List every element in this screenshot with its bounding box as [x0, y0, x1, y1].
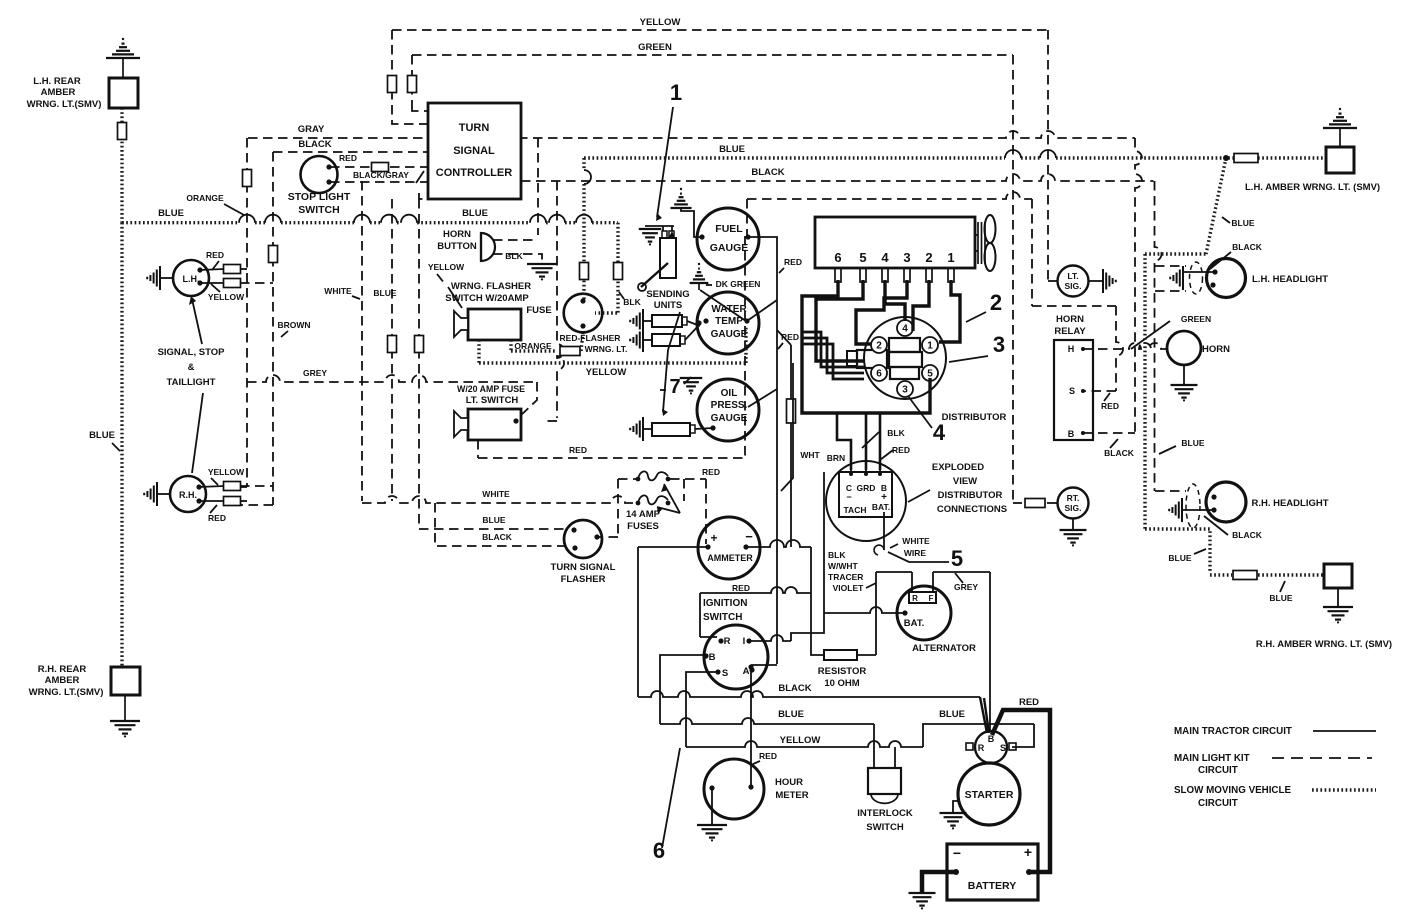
svg-text:YELLOW: YELLOW: [428, 262, 465, 272]
svg-text:BAT.: BAT.: [904, 618, 924, 629]
svg-text:+: +: [1024, 844, 1032, 860]
svg-text:YELLOW: YELLOW: [640, 17, 681, 28]
svg-text:GREEN: GREEN: [1181, 314, 1211, 324]
svg-text:WHITE: WHITE: [324, 286, 352, 296]
svg-text:BLACK: BLACK: [298, 139, 331, 150]
svg-text:2: 2: [925, 250, 932, 265]
svg-text:IGNITION: IGNITION: [703, 598, 747, 609]
svg-text:L.H. HEADLIGHT: L.H. HEADLIGHT: [1252, 274, 1328, 285]
svg-text:LT.: LT.: [1067, 271, 1078, 281]
svg-text:AMBER: AMBER: [45, 675, 80, 686]
svg-text:−: −: [745, 529, 753, 544]
svg-text:WHT: WHT: [800, 450, 820, 460]
svg-text:BLUE: BLUE: [89, 430, 115, 441]
svg-text:CIRCUIT: CIRCUIT: [1198, 798, 1238, 809]
svg-text:R: R: [912, 594, 918, 603]
svg-text:4: 4: [881, 250, 889, 265]
svg-text:R.H. AMBER WRNG. LT. (SMV): R.H. AMBER WRNG. LT. (SMV): [1256, 639, 1392, 650]
svg-text:ORANGE: ORANGE: [514, 341, 552, 351]
svg-text:BLACK: BLACK: [482, 532, 513, 542]
svg-text:SIG.: SIG.: [1064, 281, 1081, 291]
svg-text:ORANGE: ORANGE: [186, 193, 224, 203]
svg-text:YELLOW: YELLOW: [208, 292, 245, 302]
svg-text:SLOW MOVING VEHICLE: SLOW MOVING VEHICLE: [1174, 785, 1291, 796]
svg-text:CONTROLLER: CONTROLLER: [436, 167, 512, 179]
svg-text:BLUE: BLUE: [719, 144, 745, 155]
svg-text:YELLOW: YELLOW: [780, 735, 821, 746]
svg-text:GAUGE: GAUGE: [710, 242, 749, 254]
svg-text:VIOLET: VIOLET: [833, 583, 865, 593]
svg-text:HORN: HORN: [1202, 344, 1230, 355]
svg-text:AMMETER: AMMETER: [707, 553, 753, 563]
svg-text:4: 4: [933, 420, 946, 445]
svg-text:BLUE: BLUE: [158, 208, 184, 219]
svg-text:R: R: [978, 743, 985, 753]
svg-text:FUEL: FUEL: [715, 223, 743, 235]
svg-text:&: &: [188, 362, 195, 373]
svg-text:CONNECTIONS: CONNECTIONS: [937, 504, 1007, 515]
svg-text:TAILLIGHT: TAILLIGHT: [167, 377, 216, 388]
svg-text:MAIN TRACTOR CIRCUIT: MAIN TRACTOR CIRCUIT: [1174, 726, 1292, 737]
svg-text:RED: RED: [208, 513, 226, 523]
svg-text:RED: RED: [732, 583, 750, 593]
svg-text:RED: RED: [784, 257, 802, 267]
svg-text:RED: RED: [1101, 401, 1119, 411]
svg-text:TEMP: TEMP: [715, 316, 743, 327]
svg-text:BUTTON: BUTTON: [437, 241, 477, 252]
svg-text:FUSE: FUSE: [526, 305, 551, 316]
svg-text:W/20 AMP FUSE: W/20 AMP FUSE: [457, 384, 525, 394]
svg-text:BLUE: BLUE: [939, 709, 965, 720]
svg-text:5: 5: [927, 369, 933, 380]
svg-text:RED: RED: [892, 445, 910, 455]
svg-text:RED: RED: [569, 445, 587, 455]
svg-text:RED: RED: [206, 250, 224, 260]
svg-text:F: F: [929, 594, 934, 603]
svg-text:5: 5: [859, 250, 866, 265]
svg-text:L.H. AMBER WRNG. LT. (SMV): L.H. AMBER WRNG. LT. (SMV): [1245, 182, 1380, 193]
svg-text:SWITCH: SWITCH: [298, 204, 339, 216]
svg-text:BATTERY: BATTERY: [968, 880, 1016, 892]
svg-text:DK GREEN: DK GREEN: [716, 279, 761, 289]
svg-text:LT. SWITCH: LT. SWITCH: [466, 395, 519, 406]
svg-text:DISTRIBUTOR: DISTRIBUTOR: [942, 412, 1007, 423]
svg-text:L.H. REAR: L.H. REAR: [33, 76, 81, 87]
svg-text:B: B: [1068, 429, 1075, 439]
svg-text:HORN: HORN: [443, 229, 471, 240]
svg-text:FUSES: FUSES: [627, 521, 659, 532]
svg-text:W/WHT: W/WHT: [828, 561, 859, 571]
svg-text:3: 3: [993, 332, 1005, 357]
svg-text:WRNG. LT.: WRNG. LT.: [585, 344, 628, 354]
svg-text:BLACK: BLACK: [778, 683, 811, 694]
svg-text:SIGNAL: SIGNAL: [453, 145, 495, 157]
svg-text:SENDING: SENDING: [646, 289, 689, 300]
svg-text:WRNG. LT.(SMV): WRNG. LT.(SMV): [27, 99, 102, 110]
svg-text:RED-FLASHER: RED-FLASHER: [560, 333, 621, 343]
svg-text:BLUE: BLUE: [1181, 438, 1204, 448]
svg-text:6: 6: [876, 369, 882, 380]
svg-text:5: 5: [951, 546, 963, 571]
svg-text:R.H. REAR: R.H. REAR: [38, 664, 87, 675]
svg-text:3: 3: [902, 385, 908, 396]
svg-text:METER: METER: [775, 790, 808, 801]
svg-text:BLACK/GRAY: BLACK/GRAY: [353, 170, 409, 180]
svg-text:ALTERNATOR: ALTERNATOR: [912, 643, 976, 654]
svg-text:BLUE: BLUE: [462, 208, 488, 219]
svg-text:S: S: [1069, 386, 1075, 396]
svg-text:STARTER: STARTER: [965, 789, 1014, 801]
svg-text:TACH: TACH: [844, 505, 867, 515]
svg-text:BLACK: BLACK: [1104, 448, 1135, 458]
svg-text:3: 3: [903, 250, 910, 265]
svg-text:RESISTOR: RESISTOR: [818, 666, 867, 677]
svg-text:14 AMP: 14 AMP: [626, 509, 661, 520]
svg-text:VIEW: VIEW: [953, 476, 977, 487]
svg-text:R.H. HEADLIGHT: R.H. HEADLIGHT: [1251, 498, 1328, 509]
svg-text:GRD: GRD: [857, 483, 876, 493]
svg-text:UNITS: UNITS: [654, 300, 683, 311]
svg-text:BLK: BLK: [623, 297, 641, 307]
svg-text:GAUGE: GAUGE: [711, 329, 748, 340]
svg-text:2: 2: [990, 290, 1002, 315]
svg-text:6: 6: [834, 250, 841, 265]
svg-text:GREY: GREY: [303, 368, 327, 378]
svg-text:BRN: BRN: [827, 453, 845, 463]
svg-text:AMBER: AMBER: [41, 87, 76, 98]
svg-text:BLUE: BLUE: [1168, 553, 1191, 563]
svg-text:PRESS.: PRESS.: [711, 400, 748, 411]
svg-text:BLUE: BLUE: [482, 515, 505, 525]
svg-text:1: 1: [947, 250, 954, 265]
svg-text:R: R: [724, 636, 731, 647]
svg-text:BLK: BLK: [887, 428, 905, 438]
svg-text:OIL: OIL: [721, 388, 738, 399]
svg-text:1: 1: [927, 341, 933, 352]
svg-text:CIRCUIT: CIRCUIT: [1198, 765, 1238, 776]
svg-text:BLK: BLK: [505, 251, 523, 261]
svg-text:INTERLOCK: INTERLOCK: [857, 808, 913, 819]
svg-text:WIRE: WIRE: [904, 548, 927, 558]
svg-text:BAT.: BAT.: [872, 502, 890, 512]
svg-text:RED: RED: [1019, 697, 1039, 708]
svg-text:GREEN: GREEN: [638, 42, 672, 53]
svg-text:STOP LIGHT: STOP LIGHT: [288, 191, 351, 203]
svg-text:10 OHM: 10 OHM: [824, 678, 859, 689]
svg-text:GAUGE: GAUGE: [711, 413, 748, 424]
svg-text:+: +: [710, 531, 717, 545]
svg-text:RED: RED: [759, 751, 777, 761]
svg-text:GRAY: GRAY: [298, 124, 325, 135]
svg-text:S: S: [1000, 743, 1006, 753]
svg-text:RT.: RT.: [1067, 493, 1080, 503]
svg-text:YELLOW: YELLOW: [586, 367, 627, 378]
svg-text:BLUE: BLUE: [1269, 593, 1292, 603]
svg-text:H: H: [1068, 344, 1075, 354]
svg-text:HORN: HORN: [1056, 314, 1084, 325]
svg-text:BLACK: BLACK: [1232, 530, 1263, 540]
svg-text:EXPLODED: EXPLODED: [932, 462, 984, 473]
svg-text:−: −: [953, 845, 961, 861]
svg-text:BLK: BLK: [828, 550, 846, 560]
svg-text:BLUE: BLUE: [778, 709, 804, 720]
svg-text:4: 4: [902, 324, 908, 335]
svg-text:SIGNAL, STOP: SIGNAL, STOP: [158, 347, 226, 358]
svg-text:WRNG. FLASHER: WRNG. FLASHER: [451, 281, 531, 292]
svg-text:HOUR: HOUR: [775, 777, 803, 788]
svg-text:DISTRIBUTOR: DISTRIBUTOR: [938, 490, 1003, 501]
svg-text:7: 7: [669, 376, 680, 398]
svg-text:FLASHER: FLASHER: [561, 574, 606, 585]
svg-text:WHITE: WHITE: [482, 489, 510, 499]
svg-text:BLACK: BLACK: [1232, 242, 1263, 252]
svg-text:R.H.: R.H.: [179, 490, 197, 500]
svg-text:I: I: [743, 636, 746, 647]
svg-text:SWITCH: SWITCH: [866, 822, 904, 833]
svg-text:WHITE: WHITE: [902, 536, 930, 546]
svg-text:WRNG. LT.(SMV): WRNG. LT.(SMV): [29, 687, 104, 698]
svg-text:BLACK: BLACK: [751, 167, 784, 178]
svg-text:L.H.: L.H.: [183, 274, 200, 284]
svg-text:TRACER: TRACER: [828, 572, 863, 582]
svg-text:MAIN LIGHT KIT: MAIN LIGHT KIT: [1174, 753, 1250, 764]
svg-text:1: 1: [670, 80, 682, 105]
svg-text:SWITCH: SWITCH: [703, 612, 742, 623]
svg-text:YELLOW: YELLOW: [208, 467, 245, 477]
svg-text:2: 2: [876, 341, 882, 352]
svg-text:GREY: GREY: [954, 582, 978, 592]
svg-text:RELAY: RELAY: [1054, 326, 1086, 337]
svg-text:BROWN: BROWN: [277, 320, 310, 330]
svg-text:BLUE: BLUE: [1231, 218, 1254, 228]
svg-text:−: −: [846, 492, 851, 502]
svg-text:TURN SIGNAL: TURN SIGNAL: [551, 562, 616, 573]
svg-text:S: S: [722, 668, 728, 679]
svg-text:SIG.: SIG.: [1064, 503, 1081, 513]
svg-text:RED: RED: [339, 153, 357, 163]
svg-text:BLUE: BLUE: [373, 288, 396, 298]
svg-text:RED: RED: [702, 467, 720, 477]
svg-text:B: B: [709, 652, 716, 663]
svg-text:TURN: TURN: [459, 122, 490, 134]
